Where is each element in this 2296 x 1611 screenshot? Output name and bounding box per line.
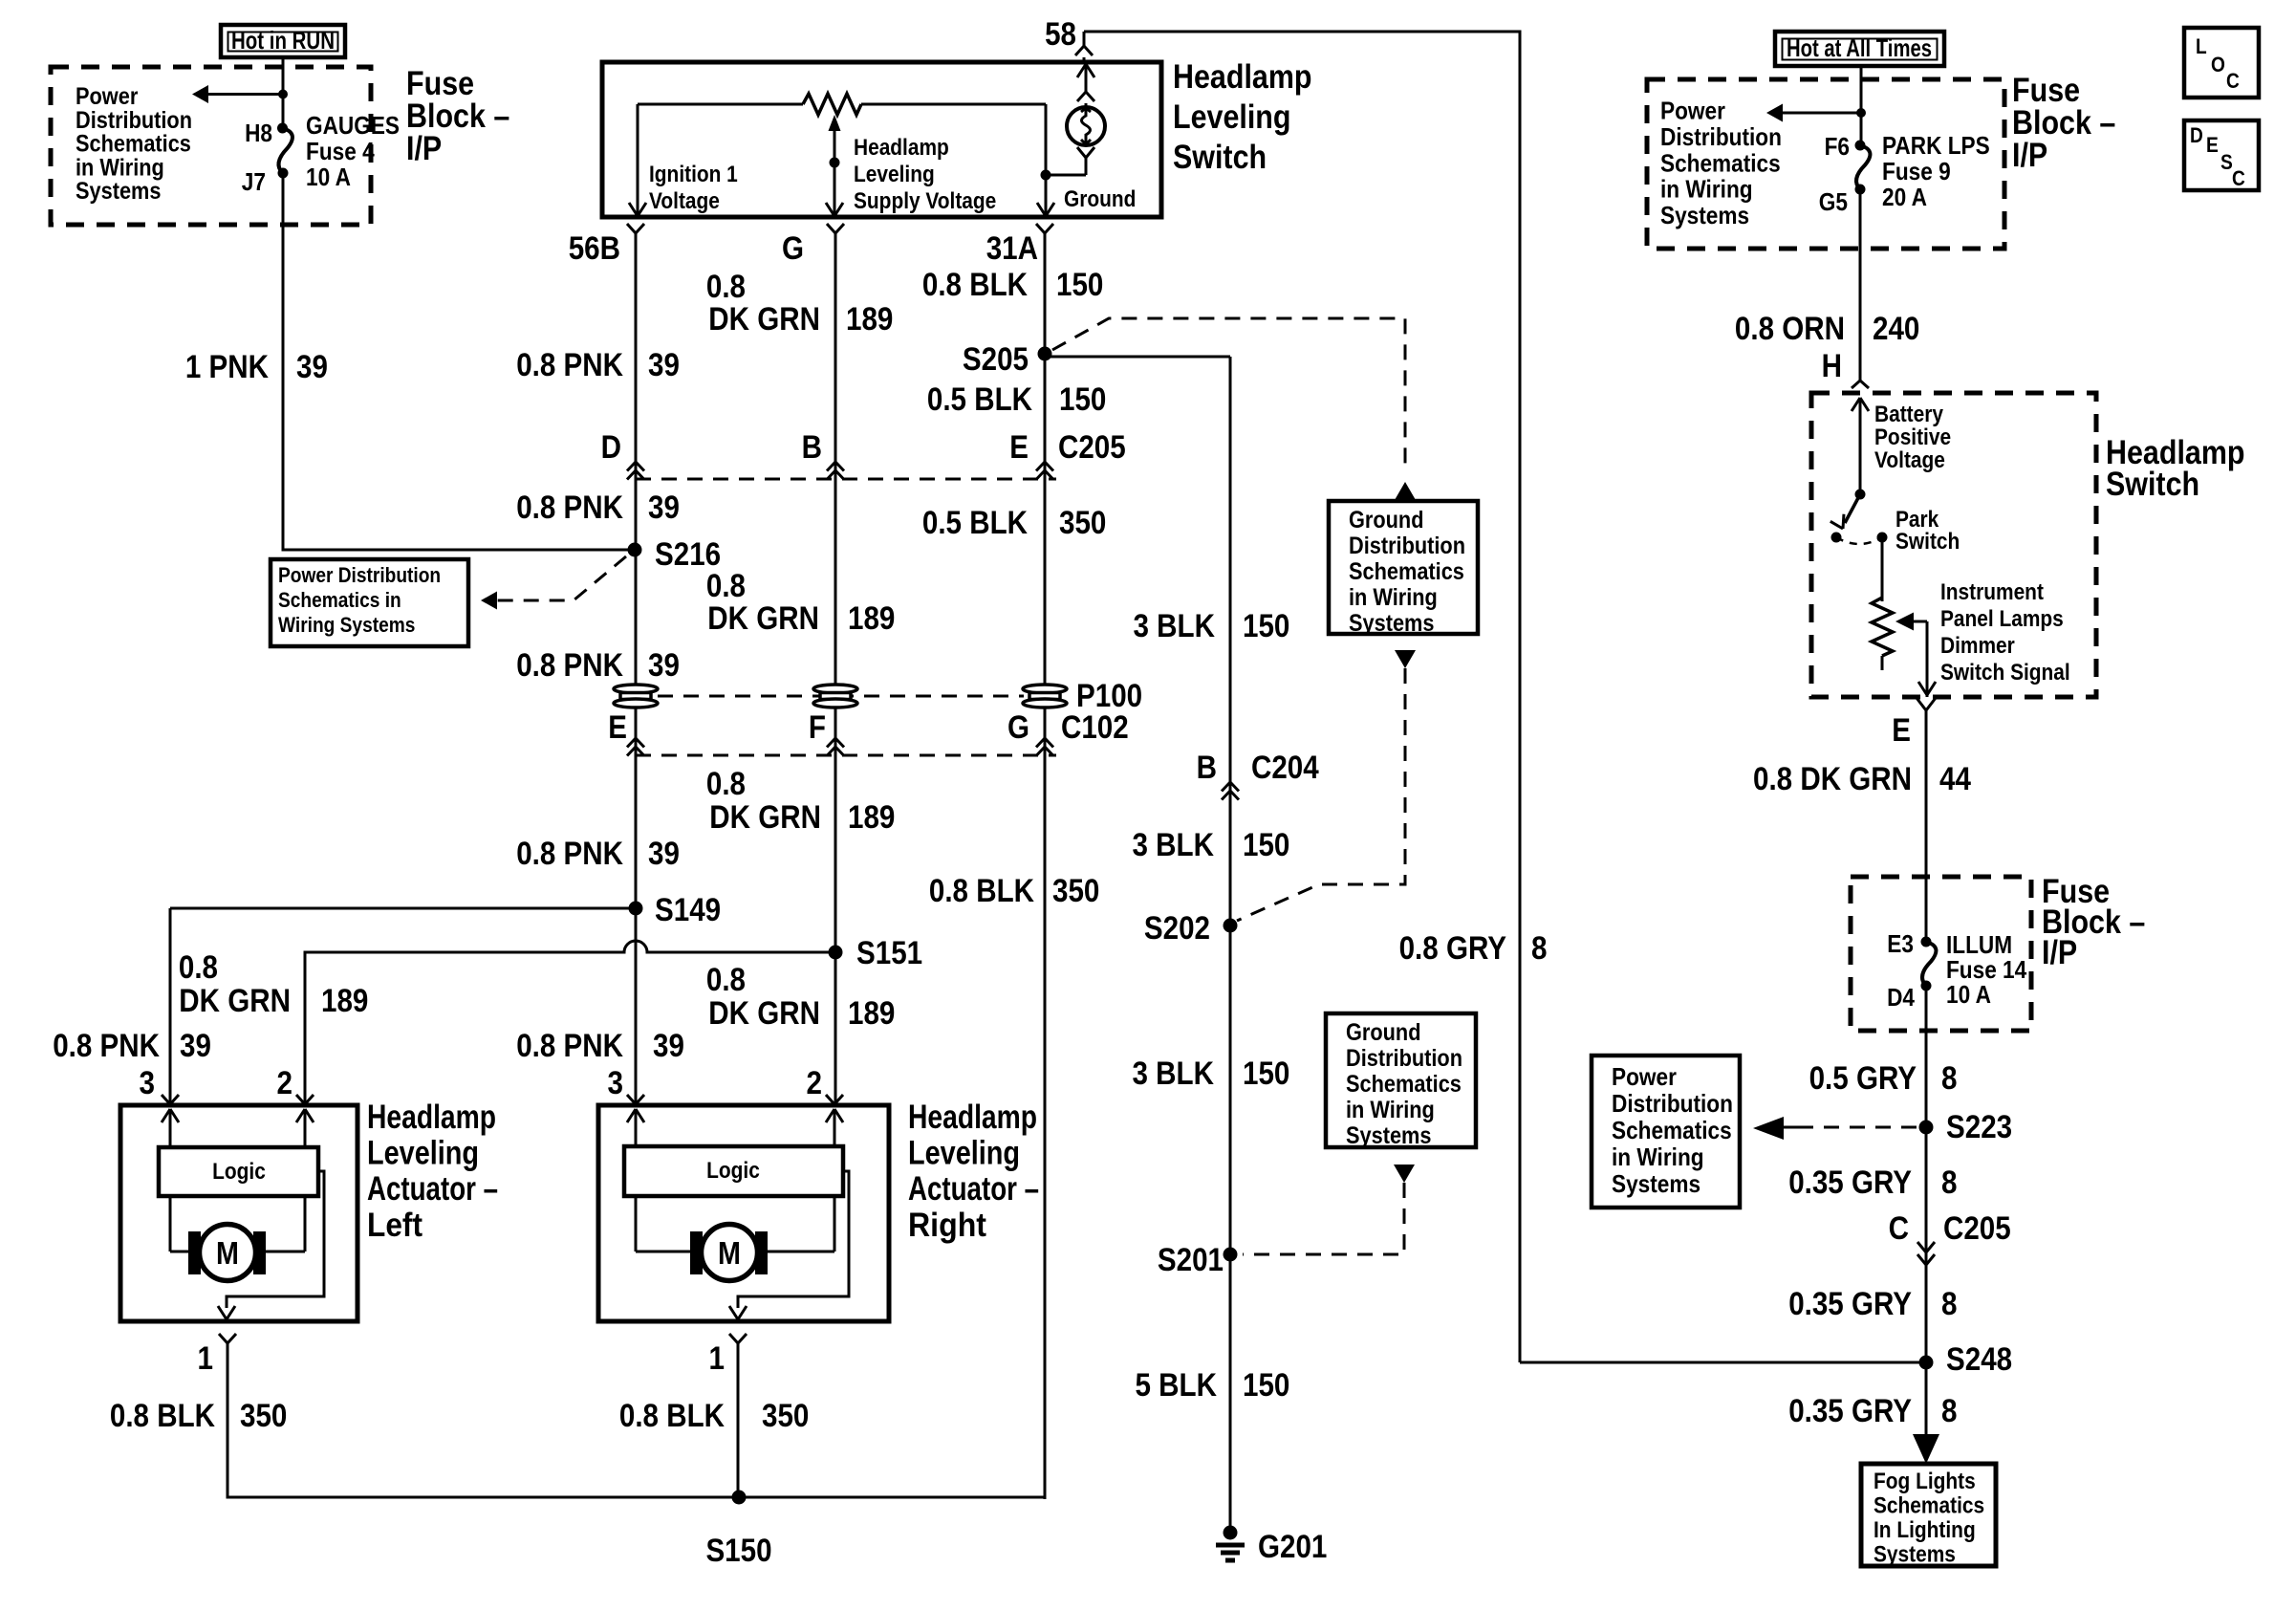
wire: 0.8 ORN 240 from G5 down xyxy=(1859,189,1862,381)
reference box: Power Distribution Schematics in Wiring Systems (mid-left) xyxy=(271,559,468,646)
label 58 xyxy=(1045,16,1076,53)
svg-text:Systems: Systems xyxy=(1612,1169,1700,1198)
svg-text:56B: 56B xyxy=(569,230,620,267)
junction S202 dot xyxy=(1224,919,1238,933)
switch dashed throw arc xyxy=(1836,537,1882,544)
arrow into fog lights box xyxy=(1913,1434,1939,1464)
junction S201 dot xyxy=(1224,1248,1238,1262)
svg-text:in Wiring: in Wiring xyxy=(1349,584,1438,611)
switch text Ground xyxy=(1064,186,1136,212)
label 3 BLK | 150 (row2) xyxy=(1133,827,1290,863)
label E | C205 xyxy=(1009,429,1125,466)
label 1 PNK | 39 xyxy=(185,349,328,385)
label 0.8 DK GRN | 189 (row1) xyxy=(706,568,896,637)
svg-text:Power: Power xyxy=(76,83,139,110)
svg-text:1: 1 xyxy=(198,1340,214,1377)
svg-text:3 BLK: 3 BLK xyxy=(1133,827,1215,863)
label G | C102 xyxy=(1007,709,1129,746)
junction dot on feed wire xyxy=(278,90,288,99)
svg-text:0.8 PNK: 0.8 PNK xyxy=(53,1028,160,1064)
svg-text:C: C xyxy=(2232,166,2245,190)
svg-text:Switch: Switch xyxy=(1895,529,1960,555)
svg-text:E: E xyxy=(608,709,627,746)
fuse F4 terminal H8 dot xyxy=(277,123,288,134)
left actuator pin 2 chevron + label xyxy=(277,1065,314,1104)
wire1 output chevron + label 56B xyxy=(569,224,644,267)
svg-text:F: F xyxy=(809,709,826,746)
label 0.8 PNK | 39 (row3) xyxy=(516,647,680,684)
svg-text:8: 8 xyxy=(1531,930,1548,967)
left actuator pin3 entry arrow xyxy=(162,1109,179,1147)
label S149 xyxy=(655,892,721,928)
connector P100 grommet wire2 xyxy=(813,685,857,708)
label 0.5 BLK | 350 xyxy=(922,505,1107,541)
svg-text:C: C xyxy=(1889,1210,1909,1247)
wire3: BLK vertical run xyxy=(1044,233,1047,1499)
label H8 xyxy=(245,119,272,147)
junction S216 dot xyxy=(628,543,642,557)
right actuator pin2 entry arrow xyxy=(826,1109,843,1146)
svg-text:150: 150 xyxy=(1243,1367,1289,1404)
arrow into ground distribution box (top) xyxy=(1395,482,1416,500)
junction S205 dot xyxy=(1038,347,1052,361)
fuse block I/P left dashed box xyxy=(51,67,371,225)
svg-text:Fuse 4: Fuse 4 xyxy=(306,137,375,165)
connector C205 chevrons wire2 xyxy=(827,462,844,480)
switch output chevron + label E xyxy=(1892,698,1936,749)
svg-text:DK GRN: DK GRN xyxy=(179,983,291,1019)
svg-text:150: 150 xyxy=(1243,827,1289,863)
svg-text:Systems: Systems xyxy=(1660,201,1749,229)
arrow out of lower ground box xyxy=(1394,1165,1415,1183)
wire2: 0.8 DK GRN 189 vertical run xyxy=(834,233,837,952)
svg-text:M: M xyxy=(718,1235,741,1271)
connector C102 chevrons wire1 xyxy=(627,738,644,756)
svg-text:E3: E3 xyxy=(1887,929,1914,958)
svg-text:5 BLK: 5 BLK xyxy=(1136,1367,1218,1404)
label 0.8 PNK | 39 (left actuator) xyxy=(53,1028,211,1064)
label B | C204 xyxy=(1197,750,1319,786)
svg-text:D: D xyxy=(601,429,621,466)
svg-text:Switch: Switch xyxy=(2106,466,2199,503)
switch text Park Switch xyxy=(1895,507,1960,555)
svg-text:150: 150 xyxy=(1056,267,1103,303)
svg-text:H8: H8 xyxy=(245,119,272,147)
svg-text:39: 39 xyxy=(648,490,680,526)
svg-text:Leveling: Leveling xyxy=(1173,98,1291,136)
svg-text:0.8 BLK: 0.8 BLK xyxy=(922,267,1028,303)
connector C204 chevrons xyxy=(1222,782,1239,800)
svg-text:8: 8 xyxy=(1941,1165,1958,1201)
wire: S149 to right actuator pin 3 xyxy=(635,908,638,1105)
svg-text:DK GRN: DK GRN xyxy=(709,799,821,836)
junction S223 dot xyxy=(1919,1121,1934,1135)
label Headlamp Leveling Switch xyxy=(1173,58,1312,176)
svg-text:GAUGES: GAUGES xyxy=(306,111,400,140)
svg-text:0.8: 0.8 xyxy=(706,269,746,305)
headlamp leveling actuator left box xyxy=(120,1105,357,1321)
svg-text:Voltage: Voltage xyxy=(1874,447,1945,473)
wire: 0.8 DK GRN 44 down to fuse block xyxy=(1925,710,1928,942)
switch internal: ground wire xyxy=(1037,104,1054,217)
label S202 xyxy=(1144,910,1210,947)
label 0.8 DK GRN | 189 (right actuator) xyxy=(706,962,896,1032)
label D xyxy=(601,429,621,466)
wire: 0.5 GRY 8 down from D4 xyxy=(1925,986,1928,1434)
svg-text:Distribution: Distribution xyxy=(1660,122,1782,151)
svg-text:0.8 PNK: 0.8 PNK xyxy=(516,836,623,872)
svg-text:B: B xyxy=(802,429,822,466)
svg-text:C205: C205 xyxy=(1943,1210,2011,1247)
svg-text:2: 2 xyxy=(277,1065,293,1101)
svg-text:Leveling: Leveling xyxy=(854,162,935,187)
ground G201 symbol xyxy=(1216,1526,1245,1561)
label C | C205 xyxy=(1889,1210,2011,1247)
svg-text:Schematics: Schematics xyxy=(1874,1493,1984,1519)
label PARK LPS Fuse 9 20 A xyxy=(1882,131,1990,211)
svg-text:0.8 BLK: 0.8 BLK xyxy=(929,873,1034,909)
label GAUGES Fuse 4 10 A xyxy=(306,111,400,191)
svg-text:Headlamp: Headlamp xyxy=(367,1099,496,1136)
fuse F4 terminal J7 dot xyxy=(278,168,289,179)
svg-text:Systems: Systems xyxy=(1346,1122,1432,1149)
junction S150 dot xyxy=(732,1491,747,1505)
svg-text:S202: S202 xyxy=(1144,910,1210,947)
svg-text:Power Distribution: Power Distribution xyxy=(278,563,441,587)
svg-text:S150: S150 xyxy=(705,1533,771,1569)
label B xyxy=(802,429,822,466)
switch illumination lamp xyxy=(1067,107,1105,145)
right actuator pin3 entry arrow xyxy=(627,1109,644,1146)
switch internal: wiper arrow xyxy=(826,115,843,217)
svg-text:10 A: 10 A xyxy=(306,163,351,191)
svg-text:0.8: 0.8 xyxy=(706,568,746,604)
svg-text:H: H xyxy=(1822,348,1842,384)
svg-text:E: E xyxy=(1009,429,1029,466)
svg-text:S201: S201 xyxy=(1158,1242,1224,1278)
label 0.8 PNK | 39 (right actuator) xyxy=(516,1028,684,1064)
wire3 output chevron + label 31A xyxy=(986,224,1053,267)
left actuator feedback wire xyxy=(218,1171,324,1319)
switch internal junction dot xyxy=(1041,170,1051,181)
dimmer resistor xyxy=(1872,598,1893,670)
label 0.8 BLK | 350 (left) xyxy=(110,1398,288,1434)
svg-text:0.8: 0.8 xyxy=(179,949,218,986)
label 0.8 BLK | 350 (right) xyxy=(619,1398,810,1434)
svg-text:350: 350 xyxy=(1059,505,1106,541)
svg-text:150: 150 xyxy=(1059,381,1106,418)
svg-text:Actuator –: Actuator – xyxy=(908,1170,1039,1208)
fuse F9 terminal F6 dot xyxy=(1855,141,1866,151)
svg-text:DK GRN: DK GRN xyxy=(708,995,820,1032)
wire: S151 to right actuator pin 2 xyxy=(834,952,837,1105)
svg-text:Hot at All Times: Hot at All Times xyxy=(1787,33,1932,62)
svg-text:189: 189 xyxy=(848,799,895,836)
svg-text:Ground: Ground xyxy=(1064,186,1136,212)
svg-text:D: D xyxy=(2190,123,2203,147)
switch pivot dot xyxy=(1855,490,1866,500)
label G5 xyxy=(1819,187,1848,216)
svg-text:L: L xyxy=(2196,34,2207,58)
switch internal: wiper dot xyxy=(830,158,840,168)
fuse F14 terminal E3 dot xyxy=(1921,937,1932,947)
wire: Hot at All Times feed xyxy=(1860,66,1863,145)
svg-text:Switch: Switch xyxy=(1173,139,1267,176)
connector C205 chevrons (right wire) xyxy=(1917,1242,1935,1265)
reference box: Power Distribution Schematics in Wiring Systems (lower right) xyxy=(1592,1056,1740,1208)
switch internal: lamp feed arrow up xyxy=(1077,64,1094,92)
connector C205 chevrons wire3 xyxy=(1036,462,1053,480)
svg-text:Fog Lights: Fog Lights xyxy=(1874,1469,1976,1494)
svg-text:Positive: Positive xyxy=(1874,425,1951,450)
svg-text:Switch Signal: Switch Signal xyxy=(1940,660,2070,686)
wire: left actuator pin1 down xyxy=(227,1343,739,1499)
svg-text:189: 189 xyxy=(846,301,893,337)
label 0.8 PNK | 39 (row1) xyxy=(516,347,680,383)
switch wire to dimmer resistor xyxy=(1881,537,1884,601)
wire: horizontal to S216 xyxy=(282,549,636,552)
fuse PARK LPS Fuse 9 element xyxy=(1856,145,1870,189)
svg-text:Instrument: Instrument xyxy=(1940,579,2044,605)
dashed reference from ground box to S202 xyxy=(1237,668,1405,921)
svg-text:Power: Power xyxy=(1612,1062,1677,1091)
reference box: Ground Distribution Schematics in Wiring Systems (lower) xyxy=(1326,1013,1476,1149)
svg-text:0.8 PNK: 0.8 PNK xyxy=(516,647,623,684)
label P100 xyxy=(1076,678,1142,714)
svg-text:39: 39 xyxy=(648,647,680,684)
headlamp switch dashed box xyxy=(1811,393,2096,697)
svg-text:Systems: Systems xyxy=(1874,1542,1956,1568)
svg-text:0.8: 0.8 xyxy=(706,766,746,802)
net 58 long vertical wire xyxy=(1519,32,1522,1362)
svg-text:in Wiring: in Wiring xyxy=(1660,175,1753,204)
svg-text:0.35 GRY: 0.35 GRY xyxy=(1788,1165,1912,1201)
connector C205 dashed line xyxy=(636,478,1056,481)
svg-text:E: E xyxy=(1892,712,1911,749)
svg-text:Distribution: Distribution xyxy=(1612,1089,1733,1118)
label Headlamp Switch (right) xyxy=(2106,434,2245,503)
right actuator motor wires xyxy=(636,1196,834,1252)
svg-text:58: 58 xyxy=(1045,16,1076,53)
svg-text:44: 44 xyxy=(1939,761,1971,797)
label Fuse Block - I/P (left) xyxy=(406,65,509,167)
svg-text:Distribution: Distribution xyxy=(1346,1045,1462,1072)
svg-text:31A: 31A xyxy=(986,230,1038,267)
svg-text:Distribution: Distribution xyxy=(1349,533,1465,559)
svg-text:D4: D4 xyxy=(1887,983,1915,1012)
label 0.8 PNK | 39 (row2) xyxy=(516,490,680,526)
svg-text:Panel Lamps: Panel Lamps xyxy=(1940,606,2064,632)
net 58 top horizontal wire xyxy=(1084,31,1522,33)
wire: right actuator pin1 down to S150 xyxy=(737,1343,740,1497)
svg-text:G: G xyxy=(782,230,804,267)
svg-text:Hot in RUN: Hot in RUN xyxy=(231,26,335,54)
svg-text:C102: C102 xyxy=(1061,709,1129,746)
svg-text:Fuse 9: Fuse 9 xyxy=(1882,157,1951,185)
svg-text:150: 150 xyxy=(1243,1056,1289,1092)
svg-text:0.8 PNK: 0.8 PNK xyxy=(516,1028,623,1064)
svg-text:Right: Right xyxy=(908,1207,986,1244)
power label box: Hot in RUN xyxy=(221,25,345,57)
svg-text:Schematics in: Schematics in xyxy=(278,588,401,612)
svg-text:C205: C205 xyxy=(1058,429,1126,466)
wire: S205 to ground bus xyxy=(1045,356,1230,359)
svg-text:0.8 PNK: 0.8 PNK xyxy=(516,490,623,526)
svg-text:M: M xyxy=(216,1235,239,1271)
svg-text:39: 39 xyxy=(648,836,680,872)
svg-text:In Lighting: In Lighting xyxy=(1874,1517,1976,1543)
connector C102 dashed line xyxy=(636,754,1056,757)
label D4 xyxy=(1887,983,1915,1012)
svg-text:Left: Left xyxy=(367,1207,422,1244)
svg-text:F6: F6 xyxy=(1825,132,1850,161)
svg-text:PARK LPS: PARK LPS xyxy=(1882,131,1990,160)
svg-text:39: 39 xyxy=(180,1028,211,1064)
left actuator motor M xyxy=(200,1225,256,1281)
svg-text:Ground: Ground xyxy=(1349,507,1424,533)
label S151 xyxy=(856,935,922,971)
label Fuse Block - I/P (right) xyxy=(2012,72,2115,174)
dashed reference from S205 to ground distribution xyxy=(1052,318,1405,470)
switch text Battery Positive Voltage xyxy=(1874,402,1951,473)
junction dot on right feed wire xyxy=(1856,108,1866,118)
wire: S151 to left actuator pin 2 (with hop) xyxy=(305,941,835,1105)
connector P100 grommet wire3 xyxy=(1023,685,1067,708)
dimmer wiper arrow xyxy=(1895,613,1936,698)
svg-text:I/P: I/P xyxy=(2012,137,2047,174)
svg-text:1: 1 xyxy=(709,1340,726,1377)
svg-text:DK GRN: DK GRN xyxy=(707,600,819,637)
svg-text:Ground: Ground xyxy=(1346,1019,1421,1046)
label 0.8 PNK | 39 (row4) xyxy=(516,836,680,872)
label F6 xyxy=(1825,132,1850,161)
svg-text:3 BLK: 3 BLK xyxy=(1133,1056,1215,1092)
svg-text:1 PNK: 1 PNK xyxy=(185,349,269,385)
label 0.8 BLK | 350 xyxy=(929,873,1100,909)
svg-text:J7: J7 xyxy=(242,167,266,196)
label Headlamp Leveling Actuator - Left xyxy=(367,1099,498,1244)
svg-text:0.8 ORN: 0.8 ORN xyxy=(1735,311,1845,347)
label 5 BLK | 150 xyxy=(1136,1367,1290,1404)
label H xyxy=(1822,348,1842,384)
headlamp leveling actuator right box xyxy=(598,1105,889,1321)
chevron into headlamp switch xyxy=(1852,381,1869,388)
svg-text:DK GRN: DK GRN xyxy=(708,301,820,337)
switch internal: bus wire right of resistor xyxy=(861,103,1046,106)
label 3 BLK | 150 (row3) xyxy=(1133,1056,1290,1092)
svg-text:Schematics: Schematics xyxy=(1660,148,1781,177)
svg-text:0.5 BLK: 0.5 BLK xyxy=(927,381,1032,418)
label 0.5 GRY | 8 xyxy=(1809,1060,1958,1097)
label S201 xyxy=(1158,1242,1224,1278)
svg-text:Voltage: Voltage xyxy=(649,188,720,214)
switch text Ignition 1 Voltage xyxy=(649,162,738,214)
label 0.8 DK GRN | 189 (left actuator) xyxy=(179,949,369,1019)
svg-text:Distribution: Distribution xyxy=(76,107,192,134)
right actuator pin 3 chevron + label xyxy=(608,1065,645,1104)
svg-text:Power: Power xyxy=(1660,97,1725,125)
left actuator pin 3 chevron + label xyxy=(140,1065,180,1104)
junction S248 dot xyxy=(1919,1356,1934,1370)
label 0.8 DK GRN | 189 (row2) xyxy=(706,766,896,836)
svg-text:Leveling: Leveling xyxy=(908,1135,1020,1172)
svg-text:S248: S248 xyxy=(1946,1341,2012,1378)
svg-text:in Wiring: in Wiring xyxy=(1346,1097,1435,1123)
switch lever xyxy=(1830,494,1860,543)
svg-text:in Wiring: in Wiring xyxy=(76,154,164,181)
dashed reference from S223 xyxy=(1753,1117,1917,1140)
fuse block I/P dashed box (ILLUM) xyxy=(1851,877,2031,1031)
label Fuse Block - I/P (lower right) xyxy=(2042,873,2145,971)
fuse block I/P right dashed box xyxy=(1647,79,2004,249)
right actuator motor M xyxy=(702,1225,758,1281)
svg-text:0.8 DK GRN: 0.8 DK GRN xyxy=(1753,761,1912,797)
wire: Hot in RUN feed into fuse block xyxy=(282,57,285,128)
switch internal: resistor xyxy=(803,94,861,115)
connector P100 dashed line xyxy=(658,695,1024,698)
svg-text:Headlamp: Headlamp xyxy=(854,135,949,161)
DESC box xyxy=(2184,120,2259,190)
svg-text:8: 8 xyxy=(1941,1393,1958,1429)
LOC box xyxy=(2184,28,2259,98)
switch text Instrument Panel Lamps Dimmer Switch Signal xyxy=(1940,579,2070,686)
label E (C102 wire1) xyxy=(608,709,627,746)
svg-text:189: 189 xyxy=(321,983,368,1019)
svg-text:Supply Voltage: Supply Voltage xyxy=(854,188,996,214)
svg-text:350: 350 xyxy=(240,1398,287,1434)
reference box: Fog Lights Schematics In Lighting Systems xyxy=(1861,1464,1996,1568)
label S216 xyxy=(655,536,721,573)
svg-text:3: 3 xyxy=(140,1065,156,1101)
label 0.5 BLK | 150 xyxy=(927,381,1107,418)
svg-text:G201: G201 xyxy=(1258,1529,1327,1565)
net 58 bottom horizontal to S248 xyxy=(1520,1361,1926,1364)
right actuator pin 1 chevron + label xyxy=(709,1334,747,1377)
label S205 xyxy=(963,341,1029,378)
label 0.8 DK GRN | 189 (row0) xyxy=(706,269,894,337)
dashed reference from S216 xyxy=(481,556,626,610)
svg-text:0.8 PNK: 0.8 PNK xyxy=(516,347,623,383)
svg-text:E: E xyxy=(2206,133,2219,157)
svg-text:Schematics: Schematics xyxy=(76,131,191,158)
label 0.35 GRY | 8 (row3) xyxy=(1788,1393,1957,1429)
left actuator motor wires xyxy=(170,1196,305,1252)
svg-text:Logic: Logic xyxy=(212,1159,266,1185)
svg-text:350: 350 xyxy=(1052,873,1099,909)
junction S149 dot xyxy=(629,902,643,916)
dashed reference from lower ground box to S201 xyxy=(1243,1183,1404,1254)
svg-text:3: 3 xyxy=(608,1065,624,1101)
svg-text:G: G xyxy=(1007,709,1029,746)
svg-text:S149: S149 xyxy=(655,892,721,928)
svg-text:in Wiring: in Wiring xyxy=(1612,1143,1704,1171)
svg-text:10 A: 10 A xyxy=(1946,980,1991,1009)
svg-text:C: C xyxy=(2226,69,2240,93)
wire: bottom run to S150 xyxy=(739,1496,1047,1499)
label 0.35 GRY | 8 (row1) xyxy=(1788,1165,1957,1201)
label 3 BLK | 150 (row1) xyxy=(1134,608,1290,644)
svg-text:39: 39 xyxy=(296,349,328,385)
svg-text:G5: G5 xyxy=(1819,187,1848,216)
label Headlamp Leveling Actuator - Right xyxy=(908,1099,1039,1244)
wire2 output chevron + label G xyxy=(782,224,844,267)
reference text: Power Distribution Schematics in Wiring Systems (right) xyxy=(1660,97,1782,230)
right actuator feedback wire xyxy=(729,1171,849,1319)
fuse ILLUM Fuse 14 element xyxy=(1922,942,1936,986)
svg-text:39: 39 xyxy=(653,1028,684,1064)
svg-text:Leveling: Leveling xyxy=(367,1135,479,1172)
label ILLUM Fuse 14 10 A xyxy=(1946,930,2027,1009)
